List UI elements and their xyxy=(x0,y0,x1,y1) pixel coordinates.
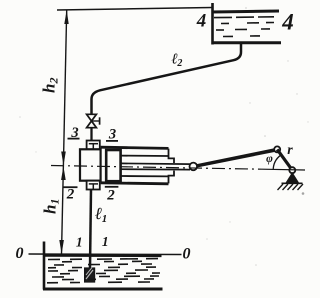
svg-text:4: 4 xyxy=(196,11,207,32)
svg-text:0: 0 xyxy=(183,246,191,263)
svg-text:0: 0 xyxy=(16,245,24,262)
svg-text:r: r xyxy=(287,143,293,158)
svg-text:2: 2 xyxy=(106,188,115,204)
svg-text:2: 2 xyxy=(66,187,75,203)
svg-text:4: 4 xyxy=(281,10,294,35)
svg-text:1: 1 xyxy=(76,235,83,250)
svg-text:1: 1 xyxy=(102,234,109,249)
svg-text:φ: φ xyxy=(266,153,273,165)
